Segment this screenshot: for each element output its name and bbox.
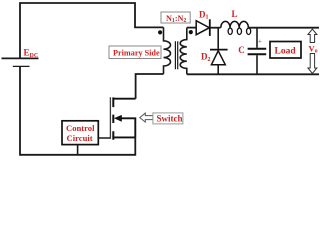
svg-text:L: L (232, 9, 238, 19)
wire: secondary top to D1 (187, 27, 196, 29)
svg-text:Switch: Switch (157, 114, 183, 124)
svg-text:Circuit: Circuit (67, 133, 93, 143)
Vo up arrow (308, 29, 317, 43)
primary polarity dot (158, 30, 162, 34)
wire: D1 to junction and L (210, 27, 221, 29)
wire: control box to gate (98, 137, 110, 139)
box N1:N2 (161, 12, 190, 23)
svg-text:Primary Side: Primary Side (113, 49, 160, 58)
diode D2 cathode bar (210, 49, 228, 51)
diode D2 (211, 51, 225, 65)
transistor Q1 channel segments (112, 97, 114, 139)
Vo down arrow (308, 54, 317, 74)
svg-text:Control: Control (66, 123, 95, 133)
box Switch (153, 113, 183, 124)
diode D1 (196, 21, 209, 35)
wire: top bus from battery + up, across, down to primary top (20, 3, 164, 58)
battery E_DC long plate (2, 57, 39, 59)
transformer secondary winding (180, 28, 187, 75)
wire: bottom rail secondary to right edge (187, 73, 319, 75)
box Primary Side (109, 46, 161, 59)
load box (270, 42, 301, 59)
svg-text:N1:N2: N1:N2 (166, 14, 186, 24)
transformer primary winding (164, 27, 171, 74)
inductor L humps (221, 21, 249, 27)
transistor Q1 body wire (119, 118, 135, 137)
transformer core (175, 41, 177, 69)
wire: battery - down, bottom bus, up to MOSFET source (20, 66, 135, 154)
capacitor C wire (256, 28, 258, 48)
transistor Q1 source bar (113, 136, 135, 138)
diode D2 branch wire (217, 28, 219, 49)
svg-text:+: + (258, 36, 262, 45)
transistor Q1 gate line (109, 97, 111, 139)
wire: primary bottom to drain (136, 74, 164, 99)
control circuit box (62, 121, 98, 145)
inductor L loops (228, 28, 232, 34)
wire: control box to bottom bus (77, 145, 79, 155)
switch pointer arrow (140, 113, 153, 122)
transistor Q1 arrow (114, 115, 122, 122)
svg-text:C: C (238, 45, 245, 55)
capacitor C plates (248, 48, 267, 50)
wire: top rail after L to right edge (248, 27, 320, 29)
svg-text:Load: Load (275, 47, 297, 57)
battery E_DC short plate (13, 65, 30, 67)
secondary polarity dot (189, 30, 193, 34)
transistor Q1 drain bar (113, 98, 135, 100)
